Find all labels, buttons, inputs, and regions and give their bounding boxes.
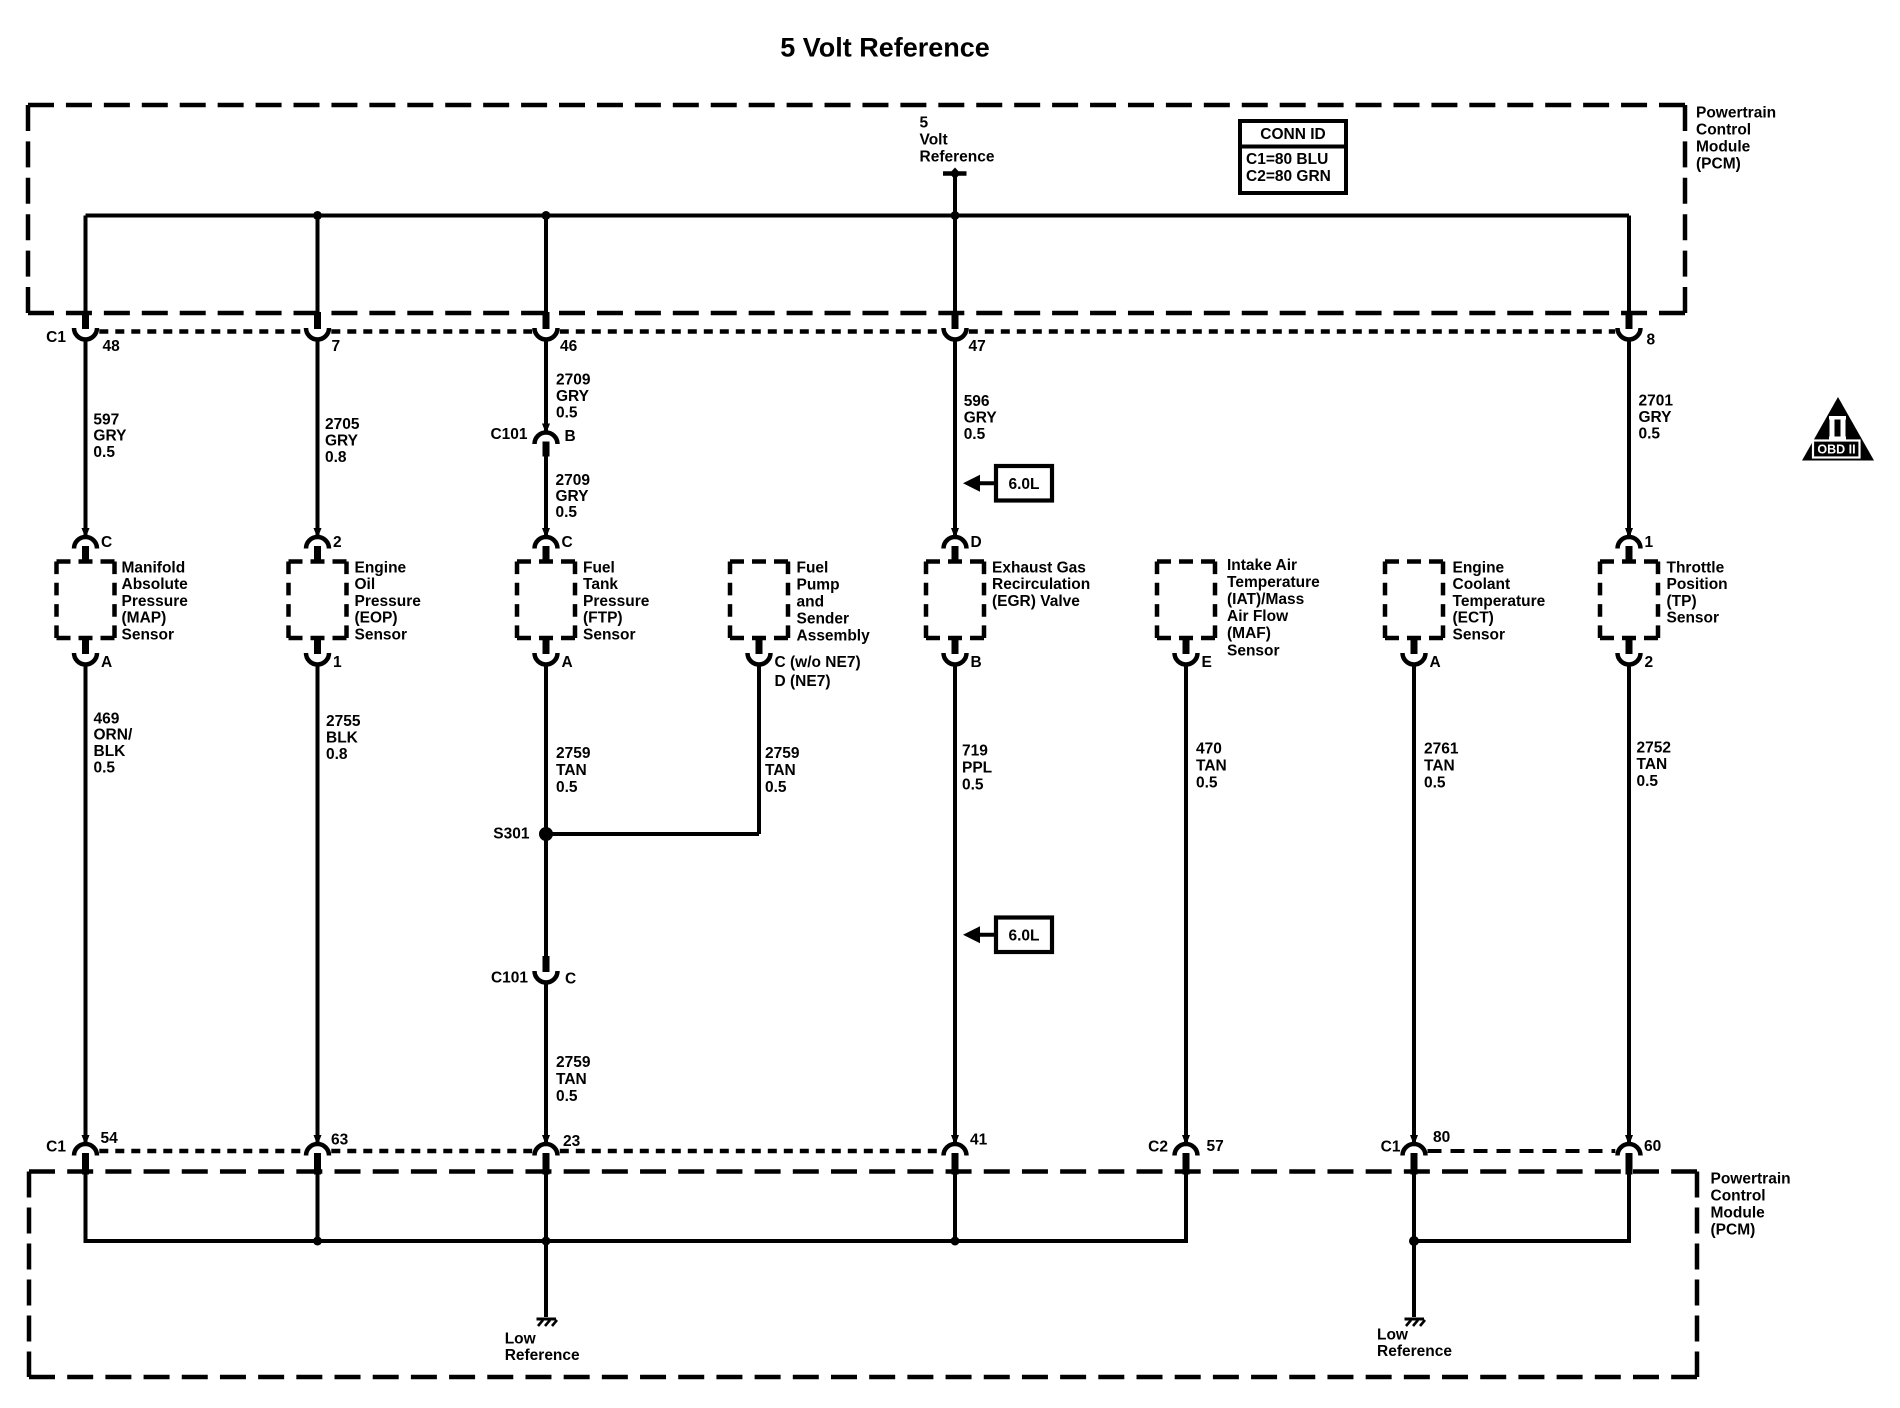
svg-text:2759: 2759 [556, 745, 591, 762]
svg-text:41: 41 [970, 1131, 988, 1148]
svg-text:C: C [101, 534, 112, 551]
svg-text:2759: 2759 [765, 745, 800, 762]
svg-text:Temperature: Temperature [1453, 593, 1546, 610]
svg-text:60: 60 [1644, 1138, 1661, 1155]
svg-text:Position: Position [1667, 576, 1728, 593]
svg-text:597: 597 [93, 411, 119, 428]
svg-text:2752: 2752 [1637, 739, 1671, 756]
svg-text:(FTP): (FTP) [583, 610, 623, 627]
svg-text:Engine: Engine [355, 559, 407, 576]
svg-text:0.5: 0.5 [93, 444, 115, 461]
svg-text:6.0L: 6.0L [1008, 476, 1039, 493]
svg-text:C1=80 BLU: C1=80 BLU [1246, 151, 1328, 168]
svg-text:Pressure: Pressure [122, 593, 189, 610]
svg-text:2: 2 [333, 534, 342, 551]
svg-text:(EOP): (EOP) [355, 610, 398, 627]
svg-text:Control: Control [1711, 1187, 1766, 1204]
svg-text:TAN: TAN [765, 762, 796, 779]
svg-text:TAN: TAN [556, 762, 587, 779]
svg-text:OBD II: OBD II [1817, 443, 1855, 457]
svg-text:GRY: GRY [556, 388, 590, 405]
svg-text:B: B [971, 654, 982, 671]
svg-text:Pressure: Pressure [583, 593, 650, 610]
svg-text:GRY: GRY [1639, 409, 1673, 426]
svg-text:A: A [562, 654, 573, 671]
svg-text:C: C [562, 534, 573, 551]
svg-text:Sensor: Sensor [1667, 610, 1720, 627]
svg-text:(TP): (TP) [1667, 593, 1697, 610]
svg-text:Throttle: Throttle [1667, 559, 1725, 576]
svg-text:23: 23 [563, 1133, 581, 1150]
svg-text:BLK: BLK [94, 743, 127, 760]
svg-text:470: 470 [1196, 740, 1222, 757]
svg-text:D: D [971, 534, 982, 551]
svg-text:C: C [565, 970, 576, 987]
svg-text:B: B [565, 428, 576, 445]
svg-text:TAN: TAN [1424, 757, 1455, 774]
svg-text:57: 57 [1207, 1138, 1224, 1155]
svg-text:2709: 2709 [556, 371, 591, 388]
svg-text:C1: C1 [1381, 1138, 1401, 1155]
svg-text:Temperature: Temperature [1227, 574, 1320, 591]
svg-text:Engine: Engine [1453, 559, 1505, 576]
svg-text:0.8: 0.8 [325, 449, 347, 466]
svg-text:Module: Module [1696, 138, 1751, 155]
svg-text:Reference: Reference [920, 148, 995, 165]
svg-text:GRY: GRY [556, 488, 590, 505]
svg-text:S301: S301 [493, 825, 530, 842]
svg-text:0.5: 0.5 [94, 760, 116, 777]
svg-text:0.5: 0.5 [1196, 774, 1218, 791]
svg-text:C101: C101 [491, 969, 528, 986]
svg-text:2759: 2759 [556, 1054, 591, 1071]
svg-text:5 Volt Reference: 5 Volt Reference [780, 33, 990, 63]
svg-text:Module: Module [1711, 1204, 1766, 1221]
svg-text:A: A [101, 654, 112, 671]
svg-text:(MAP): (MAP) [122, 610, 167, 627]
svg-text:0.5: 0.5 [765, 779, 787, 796]
svg-text:54: 54 [101, 1130, 119, 1147]
svg-text:Low: Low [505, 1330, 537, 1347]
svg-text:596: 596 [964, 393, 990, 410]
svg-text:Exhaust Gas: Exhaust Gas [992, 559, 1086, 576]
svg-text:Fuel: Fuel [797, 559, 829, 576]
svg-text:GRY: GRY [93, 428, 127, 445]
svg-text:TAN: TAN [1196, 757, 1227, 774]
svg-text:GRY: GRY [325, 432, 359, 449]
svg-text:(ECT): (ECT) [1453, 610, 1494, 627]
svg-text:Control: Control [1696, 121, 1751, 138]
svg-text:Reference: Reference [505, 1347, 580, 1364]
svg-text:Sensor: Sensor [122, 627, 175, 644]
svg-text:(MAF): (MAF) [1227, 625, 1271, 642]
svg-text:(PCM): (PCM) [1711, 1221, 1756, 1238]
svg-text:D (NE7): D (NE7) [775, 673, 831, 690]
svg-text:46: 46 [560, 338, 578, 355]
svg-text:63: 63 [331, 1131, 349, 1148]
svg-text:2709: 2709 [556, 472, 591, 489]
svg-text:TAN: TAN [556, 1071, 587, 1088]
svg-text:C2=80 GRN: C2=80 GRN [1246, 168, 1331, 185]
svg-text:1: 1 [1645, 534, 1654, 551]
svg-text:0.5: 0.5 [964, 426, 986, 443]
svg-text:0.5: 0.5 [556, 779, 578, 796]
svg-text:Oil: Oil [355, 576, 376, 593]
svg-text:0.8: 0.8 [326, 746, 348, 763]
svg-text:Fuel: Fuel [583, 559, 615, 576]
svg-text:Coolant: Coolant [1453, 576, 1511, 593]
svg-text:2705: 2705 [325, 416, 360, 433]
svg-text:80: 80 [1433, 1129, 1450, 1146]
svg-text:719: 719 [962, 742, 988, 759]
svg-text:Sender: Sender [797, 610, 850, 627]
svg-text:Manifold: Manifold [122, 559, 186, 576]
svg-text:48: 48 [103, 338, 121, 355]
svg-text:Pump: Pump [797, 576, 840, 593]
svg-text:5: 5 [920, 114, 929, 131]
svg-text:Sensor: Sensor [583, 627, 636, 644]
svg-text:C1: C1 [46, 1138, 66, 1155]
svg-text:ORN/: ORN/ [94, 727, 133, 744]
svg-text:Pressure: Pressure [355, 593, 422, 610]
svg-text:47: 47 [969, 338, 986, 355]
svg-text:0.5: 0.5 [962, 776, 984, 793]
svg-text:A: A [1430, 654, 1441, 671]
svg-text:2755: 2755 [326, 713, 361, 730]
svg-text:BLK: BLK [326, 729, 359, 746]
svg-text:Volt: Volt [920, 131, 948, 148]
svg-text:Tank: Tank [583, 576, 618, 593]
svg-text:and: and [797, 593, 825, 610]
svg-text:TAN: TAN [1637, 756, 1668, 773]
svg-text:0.5: 0.5 [556, 404, 578, 421]
svg-text:C101: C101 [490, 426, 527, 443]
svg-text:2: 2 [1645, 654, 1654, 671]
svg-text:Reference: Reference [1377, 1343, 1452, 1360]
svg-text:C1: C1 [46, 329, 66, 346]
svg-text:0.5: 0.5 [1639, 425, 1661, 442]
svg-text:Sensor: Sensor [355, 627, 408, 644]
svg-text:Sensor: Sensor [1227, 642, 1280, 659]
svg-text:Recirculation: Recirculation [992, 576, 1090, 593]
svg-text:Absolute: Absolute [122, 576, 189, 593]
svg-text:E: E [1202, 654, 1212, 671]
svg-text:Low: Low [1377, 1326, 1409, 1343]
svg-text:GRY: GRY [964, 409, 998, 426]
svg-text:0.5: 0.5 [556, 504, 578, 521]
svg-text:2701: 2701 [1639, 392, 1674, 409]
svg-text:C2: C2 [1148, 1138, 1168, 1155]
svg-text:2761: 2761 [1424, 740, 1459, 757]
svg-text:PPL: PPL [962, 759, 992, 776]
svg-text:Assembly: Assembly [797, 627, 871, 644]
svg-text:0.5: 0.5 [1424, 774, 1446, 791]
svg-text:0.5: 0.5 [1637, 773, 1659, 790]
svg-text:Sensor: Sensor [1453, 627, 1506, 644]
svg-text:Air Flow: Air Flow [1227, 608, 1289, 625]
svg-text:Intake Air: Intake Air [1227, 557, 1297, 574]
svg-text:Powertrain: Powertrain [1696, 104, 1776, 121]
svg-text:1: 1 [333, 654, 342, 671]
svg-text:(PCM): (PCM) [1696, 155, 1741, 172]
svg-text:Powertrain: Powertrain [1711, 1170, 1791, 1187]
svg-text:(IAT)/Mass: (IAT)/Mass [1227, 591, 1304, 608]
svg-text:8: 8 [1647, 331, 1656, 348]
svg-text:C (w/o NE7): C (w/o NE7) [775, 654, 861, 671]
svg-text:7: 7 [332, 338, 341, 355]
svg-text:469: 469 [94, 710, 120, 727]
svg-text:(EGR) Valve: (EGR) Valve [992, 593, 1080, 610]
svg-text:6.0L: 6.0L [1008, 927, 1039, 944]
svg-text:0.5: 0.5 [556, 1088, 578, 1105]
svg-text:CONN ID: CONN ID [1260, 126, 1325, 143]
